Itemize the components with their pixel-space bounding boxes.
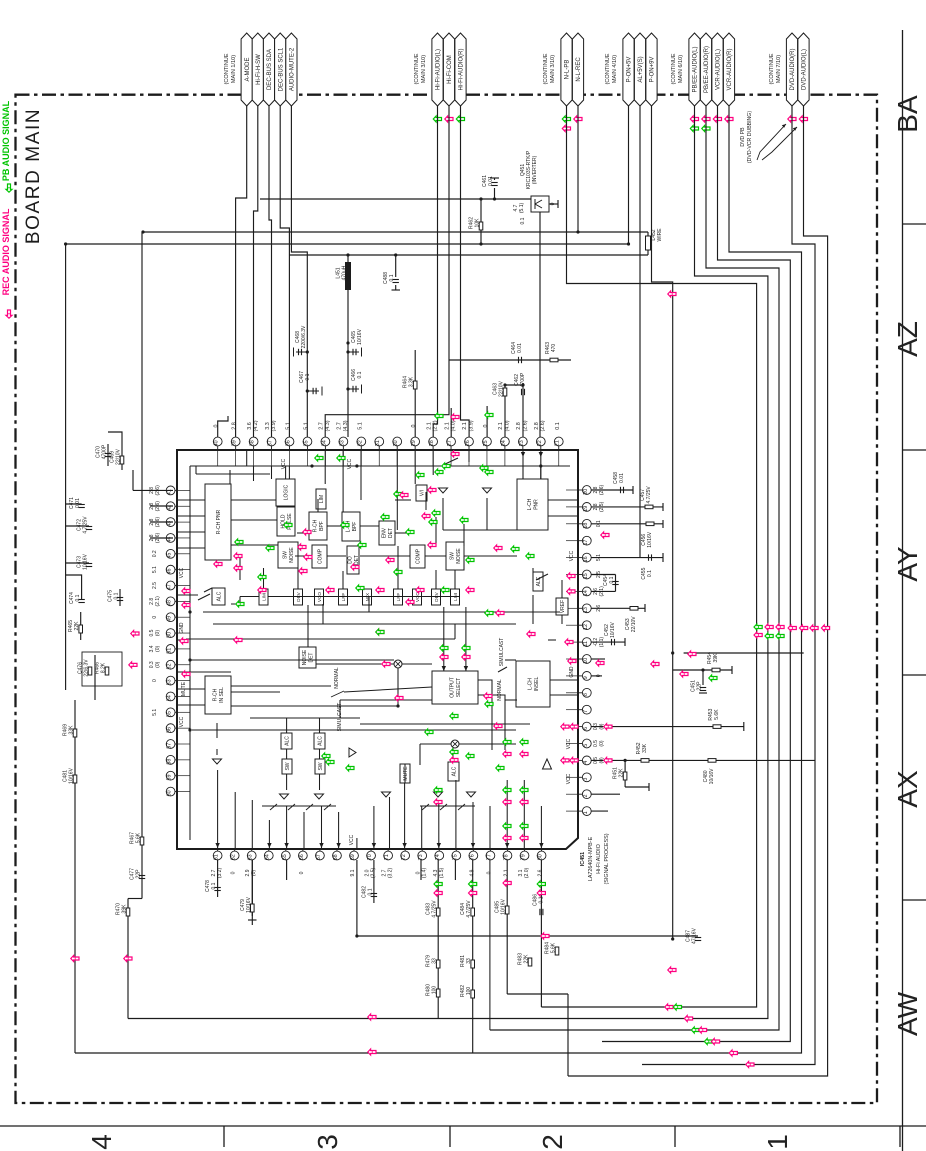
capacitor C487	[695, 937, 701, 939]
signal marker	[668, 967, 676, 973]
signal marker	[451, 451, 459, 457]
wire	[647, 232, 649, 255]
signal marker	[494, 545, 502, 551]
wire	[177, 671, 231, 673]
signal marker	[434, 787, 442, 793]
svg-text:(DVD-VCR DUBBING): (DVD-VCR DUBBING)	[747, 111, 753, 163]
signal marker	[537, 881, 545, 887]
buffer triangle up	[543, 759, 552, 769]
capacitor C457	[645, 505, 653, 509]
connector flag DEC-BUS SCL1	[275, 33, 286, 106]
svg-text:55: 55	[167, 711, 173, 717]
svg-text:77: 77	[486, 854, 492, 860]
wire	[213, 623, 516, 625]
wire	[506, 860, 508, 994]
wire	[254, 106, 258, 437]
junction	[479, 197, 482, 200]
wire	[295, 555, 312, 557]
wire	[628, 106, 630, 244]
wire	[433, 106, 437, 437]
svg-text:P-ON+9V: P-ON+9V	[650, 57, 656, 83]
wire	[591, 759, 815, 761]
svg-text:36: 36	[286, 440, 292, 446]
wire	[297, 532, 309, 534]
wire	[262, 805, 336, 807]
signal marker	[469, 890, 477, 896]
svg-text:100: 100	[432, 986, 438, 995]
junction	[188, 658, 191, 661]
signal marker	[129, 662, 137, 668]
margin line bottom	[0, 1125, 926, 1127]
signal marker	[788, 625, 796, 631]
svg-text:IC451: IC451	[580, 852, 586, 866]
junction	[624, 759, 627, 762]
svg-text:2.8: 2.8	[232, 422, 238, 430]
connector flag A-MODE	[241, 33, 252, 106]
svg-text:ALC: ALC	[451, 766, 457, 776]
wire	[455, 780, 457, 849]
wire	[250, 717, 360, 719]
svg-text:LIM: LIM	[319, 495, 325, 503]
signal marker	[688, 651, 696, 657]
svg-text:PB AUDIO SIGNAL: PB AUDIO SIGNAL	[1, 100, 11, 181]
svg-text:27: 27	[447, 440, 453, 446]
wire	[591, 810, 608, 812]
wire	[340, 699, 432, 701]
svg-text:76: 76	[469, 854, 475, 860]
svg-text:(0): (0)	[155, 646, 161, 652]
block L-CH INSEL	[516, 661, 550, 707]
wire	[632, 486, 634, 494]
svg-text:2.7: 2.7	[337, 422, 343, 430]
signal marker	[234, 553, 242, 559]
signal marker	[450, 749, 458, 755]
margin tick bottom 3	[674, 1126, 676, 1147]
block ALC b3	[448, 762, 459, 781]
signal marker	[684, 1016, 692, 1022]
signal marker	[520, 835, 528, 841]
signal marker	[304, 554, 312, 560]
signal marker	[800, 625, 808, 631]
IC U451 outline LA72640N	[177, 450, 578, 849]
svg-text:0.1: 0.1	[357, 371, 363, 378]
wire	[443, 529, 517, 531]
svg-text:40: 40	[214, 440, 220, 446]
signal marker	[754, 624, 762, 630]
resistor R464	[413, 381, 417, 389]
switch contact	[440, 804, 447, 810]
svg-text:REC AUDIO SIGNAL: REC AUDIO SIGNAL	[1, 208, 11, 295]
signal marker	[368, 1014, 376, 1020]
wire	[684, 652, 804, 654]
resistor R484	[555, 947, 559, 955]
svg-text:15: 15	[583, 573, 589, 579]
svg-text:VCC: VCC	[569, 550, 575, 561]
capacitor C462	[521, 389, 523, 395]
wire	[236, 106, 247, 437]
wire	[65, 575, 67, 690]
svg-text:COMP: COMP	[415, 548, 421, 564]
wire	[504, 385, 506, 437]
svg-text:56: 56	[167, 727, 173, 733]
svg-text:5.1: 5.1	[357, 422, 363, 430]
svg-text:10K: 10K	[475, 218, 481, 228]
wire	[465, 607, 467, 671]
wire	[395, 285, 397, 290]
svg-text:4.7/25V: 4.7/25V	[83, 516, 89, 534]
svg-text:(CONTINUE: (CONTINUE	[769, 53, 775, 84]
buffer triangle right	[349, 748, 356, 757]
block COMP l	[312, 545, 327, 568]
svg-text:0.01: 0.01	[517, 343, 523, 353]
wire	[432, 450, 434, 475]
legend arrow REC	[6, 310, 12, 318]
pin arrow	[267, 843, 271, 848]
note arrow 2	[762, 127, 797, 160]
wire	[648, 783, 650, 791]
signal marker	[567, 588, 575, 594]
svg-text:39K: 39K	[122, 904, 128, 914]
wire	[549, 203, 558, 205]
resistor R483	[528, 958, 532, 966]
svg-text:0.1: 0.1	[609, 576, 615, 583]
svg-text:N-L-PB: N-L-PB	[565, 60, 571, 80]
pin arrow	[336, 843, 340, 848]
signal marker	[376, 629, 384, 635]
signal marker	[440, 654, 448, 660]
wire	[324, 450, 326, 484]
svg-text:50: 50	[167, 632, 173, 638]
svg-text:VCC: VCC	[347, 458, 353, 469]
svg-text:(0): (0)	[155, 630, 161, 636]
signal marker	[266, 545, 274, 551]
wire	[540, 466, 542, 479]
wire	[268, 596, 459, 598]
svg-text:54: 54	[167, 695, 173, 701]
svg-text:70: 70	[367, 854, 373, 860]
block COMP r	[410, 545, 425, 568]
svg-text:28: 28	[429, 440, 435, 446]
svg-text:(INVERTER): (INVERTER)	[532, 155, 538, 184]
wire	[459, 743, 516, 745]
svg-text:39: 39	[232, 440, 238, 446]
pin arrow	[539, 843, 543, 848]
signal marker	[381, 514, 389, 520]
wire	[339, 700, 341, 718]
wire	[642, 106, 815, 1065]
block LPF	[394, 589, 403, 605]
wire	[141, 232, 143, 899]
wire	[505, 659, 516, 661]
inductor L452	[646, 236, 651, 250]
signal marker	[469, 881, 477, 887]
buffer triangle	[439, 488, 448, 493]
signal marker	[445, 116, 453, 122]
inductor L451	[345, 262, 351, 290]
wire	[316, 663, 394, 665]
svg-text:BOARD MAIN: BOARD MAIN	[23, 108, 44, 244]
wire	[289, 254, 648, 256]
svg-text:PNR: PNR	[533, 499, 539, 510]
signal marker	[326, 587, 334, 593]
wire	[246, 450, 248, 466]
pin arrow	[539, 452, 543, 457]
junction	[64, 242, 67, 245]
wire	[177, 515, 205, 517]
signal marker	[416, 472, 424, 478]
connector flag Hi-Fi-AUDIO(L)	[432, 33, 443, 106]
capacitor C464	[518, 357, 520, 363]
legend arrow PB	[6, 184, 12, 192]
signal marker	[422, 513, 430, 519]
svg-text:Hi-Fi-AUDIO(L): Hi-Fi-AUDIO(L)	[436, 49, 442, 90]
svg-text:10/16V: 10/16V	[69, 767, 75, 784]
capacitor C452	[611, 639, 613, 645]
svg-text:DET: DET	[388, 528, 394, 538]
svg-text:PULSE: PULSE	[287, 513, 293, 530]
signal marker	[604, 757, 612, 763]
wire	[231, 544, 278, 546]
wire	[285, 466, 287, 479]
junction	[539, 464, 542, 467]
svg-text:ALC: ALC	[317, 736, 323, 746]
block SW b2	[315, 759, 325, 774]
switch contact	[458, 804, 465, 810]
capacitor C472	[86, 526, 92, 528]
wire	[577, 106, 579, 232]
svg-text:5.6K: 5.6K	[551, 942, 557, 953]
wire	[240, 596, 259, 598]
svg-text:67: 67	[316, 854, 322, 860]
wire	[216, 723, 218, 738]
buffer triangle	[434, 792, 443, 797]
signal marker	[709, 675, 717, 681]
wire	[342, 571, 344, 589]
svg-text:R-CH: R-CH	[213, 688, 219, 701]
wire	[550, 679, 578, 681]
junction	[355, 934, 358, 937]
signal marker	[337, 455, 345, 461]
block ALC b1	[281, 733, 292, 749]
junction	[671, 651, 674, 654]
wire	[217, 860, 219, 897]
capacitor C466	[348, 388, 359, 390]
wire	[285, 506, 287, 507]
svg-text:WIRE: WIRE	[657, 228, 663, 242]
svg-text:47/16V: 47/16V	[692, 927, 698, 944]
svg-text:NORMAL: NORMAL	[334, 667, 340, 689]
signal marker	[698, 1027, 706, 1033]
junction	[346, 341, 349, 344]
wire	[360, 555, 410, 557]
svg-text:OUTPUT: OUTPUT	[450, 677, 456, 698]
svg-text:0.1: 0.1	[520, 217, 526, 224]
signal marker	[485, 610, 493, 616]
signal marker	[702, 116, 710, 122]
svg-text:8: 8	[583, 693, 589, 696]
wire	[591, 590, 615, 592]
wire	[404, 764, 406, 783]
svg-text:0.2: 0.2	[152, 550, 158, 557]
wire	[494, 188, 496, 199]
svg-text:22P: 22P	[136, 869, 142, 879]
svg-text:AUDIO-MUTE-2: AUDIO-MUTE-2	[290, 47, 296, 91]
wire	[327, 555, 346, 557]
wire	[119, 589, 121, 606]
IC451 right pins 20-1	[578, 489, 582, 491]
block DO DET	[347, 546, 359, 574]
svg-text:6: 6	[583, 727, 589, 730]
signal marker	[503, 799, 511, 805]
pin arrow	[215, 843, 219, 848]
junction	[394, 253, 397, 256]
block VREF	[556, 598, 568, 615]
block DEV	[294, 589, 303, 605]
capacitor C483	[436, 908, 440, 916]
wire	[454, 570, 456, 589]
wire	[624, 638, 626, 646]
wire	[435, 517, 437, 546]
signal marker	[434, 881, 442, 887]
wire	[673, 669, 732, 671]
svg-text:(CONTINUE: (CONTINUE	[414, 53, 420, 84]
wire	[356, 838, 358, 849]
svg-text:0: 0	[483, 425, 489, 428]
svg-text:VCC: VCC	[179, 567, 185, 578]
svg-text:46: 46	[167, 568, 173, 574]
wire	[66, 575, 82, 599]
svg-text:14: 14	[583, 590, 589, 596]
IC451 left pins 41-60	[175, 489, 177, 491]
svg-text:LOGIC: LOGIC	[283, 484, 289, 500]
svg-text:(SIGNAL PROCESS): (SIGNAL PROCESS)	[604, 833, 610, 884]
svg-text:61: 61	[214, 854, 220, 860]
svg-text:DET: DET	[354, 555, 360, 565]
junction	[188, 610, 191, 613]
svg-text:31: 31	[375, 440, 381, 446]
svg-text:0.01: 0.01	[488, 176, 494, 186]
signal marker	[394, 569, 402, 575]
svg-text:22: 22	[537, 440, 543, 446]
svg-text:4: 4	[583, 761, 589, 764]
svg-text:SW: SW	[318, 762, 324, 770]
wire	[505, 699, 517, 701]
signal marker	[503, 823, 511, 829]
signal marker	[680, 671, 688, 677]
wire	[66, 525, 89, 527]
wire	[702, 670, 704, 685]
capacitor C485	[505, 906, 509, 914]
resistor R451	[623, 772, 627, 780]
svg-text:22K: 22K	[74, 621, 80, 631]
svg-text:21: 21	[555, 440, 561, 446]
svg-text:Hi-Fi-H-SW: Hi-Fi-H-SW	[256, 54, 262, 85]
signal marker	[711, 1039, 719, 1045]
signal marker	[182, 588, 190, 594]
svg-text:5.1: 5.1	[286, 422, 292, 430]
block HOLD PULSE	[277, 507, 295, 536]
signal marker	[562, 126, 570, 132]
svg-text:3: 3	[583, 778, 589, 781]
wire	[625, 786, 649, 788]
block DEV	[432, 589, 441, 605]
capacitor C470	[105, 453, 111, 455]
signal marker	[236, 601, 244, 607]
svg-text:(0): (0)	[155, 661, 161, 667]
resistor R454	[712, 668, 720, 672]
wire	[591, 489, 633, 491]
signal marker	[776, 633, 784, 639]
svg-text:47: 47	[167, 584, 173, 590]
wire	[143, 231, 648, 233]
svg-text:VCR-AUDIO(L): VCR-AUDIO(L)	[716, 49, 722, 90]
wire	[395, 532, 410, 534]
svg-text:2.6: 2.6	[538, 869, 544, 876]
svg-text:MUTE: MUTE	[403, 766, 409, 781]
block V/I	[416, 485, 427, 501]
wire	[624, 760, 626, 787]
wire	[338, 812, 340, 849]
block MIX	[363, 589, 372, 605]
signal marker	[821, 625, 829, 631]
wire	[234, 792, 236, 849]
signal marker	[416, 587, 424, 593]
wire	[498, 667, 507, 672]
block ALC r	[533, 572, 543, 591]
wire	[177, 547, 205, 549]
signal marker	[234, 637, 242, 643]
resistor R462	[479, 222, 483, 230]
margin tick right 4	[903, 899, 926, 901]
svg-text:0: 0	[152, 616, 158, 619]
signal marker	[520, 823, 528, 829]
wire	[567, 994, 569, 1076]
margin tick bottom 1	[223, 1126, 225, 1147]
svg-text:(1.5): (1.5)	[439, 868, 445, 879]
signal marker	[303, 529, 311, 535]
margin tick bottom 2	[449, 1126, 451, 1147]
wire	[218, 416, 228, 437]
wire	[699, 692, 707, 694]
wire	[231, 691, 280, 693]
wire	[204, 588, 212, 592]
wire	[507, 993, 568, 995]
svg-text:32: 32	[357, 440, 363, 446]
signal marker	[451, 414, 459, 420]
svg-text:L-CH: L-CH	[527, 498, 533, 510]
IC451 top pins 40-21	[217, 446, 219, 450]
svg-text:NOISE: NOISE	[456, 548, 462, 564]
IC451 bottom pins 61-80	[217, 849, 219, 851]
wire	[486, 406, 488, 437]
block LOGIC	[276, 479, 295, 506]
wire	[397, 546, 399, 568]
signal marker	[462, 645, 470, 651]
wire	[319, 774, 321, 790]
wire	[420, 860, 422, 880]
signal marker	[561, 724, 569, 730]
wire	[360, 723, 530, 725]
signal marker	[214, 561, 222, 567]
pin arrow	[437, 843, 441, 848]
connector flag VCR-AUDIO(R)	[723, 33, 734, 106]
wire	[548, 515, 578, 517]
wire	[396, 450, 398, 530]
wire	[205, 659, 231, 661]
wire	[489, 806, 491, 849]
wire	[231, 519, 277, 521]
signal marker	[406, 599, 414, 605]
